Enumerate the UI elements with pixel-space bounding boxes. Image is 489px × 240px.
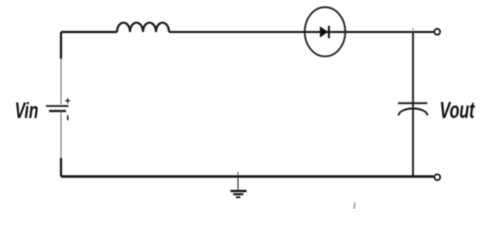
wire left rail vertical lower (60, 111, 62, 177)
svg-text:Vout: Vout (440, 97, 476, 123)
wire right branch vertical (412, 32, 414, 177)
label Vin (15, 98, 39, 123)
battery source Vin (46, 98, 70, 120)
label Vout (440, 97, 476, 123)
node junction tick ground (237, 172, 239, 176)
wire top rail right segment (169, 31, 434, 33)
wire left rail vertical upper (60, 32, 62, 104)
terminal node Vout- (434, 174, 440, 180)
wire top rail left segment (61, 31, 117, 33)
wire bottom rail (61, 175, 434, 177)
ground (231, 177, 247, 197)
inductor L (117, 23, 169, 32)
stray mark (354, 203, 355, 210)
diode D (circled) (305, 7, 346, 56)
capacitor C (398, 103, 427, 115)
node junction tick top (412, 28, 414, 32)
terminal node Vout+ (434, 29, 440, 35)
svg-text:Vin: Vin (15, 98, 39, 123)
